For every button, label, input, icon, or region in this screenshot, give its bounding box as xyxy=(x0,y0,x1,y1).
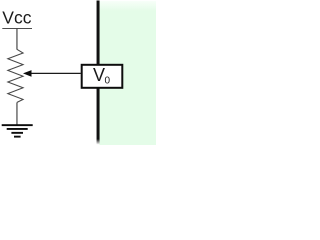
svg-text:V: V xyxy=(93,65,105,85)
Vcc power rail xyxy=(2,28,32,30)
wiper arrow wire xyxy=(31,72,81,74)
wiper arrowhead xyxy=(23,70,32,77)
wire resistor bottom to ground xyxy=(16,102,18,124)
wire rail to resistor top xyxy=(16,28,18,50)
svg-text:Vcc: Vcc xyxy=(2,8,31,28)
potentiometer R1 zigzag body xyxy=(8,49,23,102)
svg-text:0: 0 xyxy=(105,76,111,87)
ground xyxy=(2,124,33,137)
thick vertical line (panel border) xyxy=(97,1,100,140)
V0 box xyxy=(82,65,123,88)
